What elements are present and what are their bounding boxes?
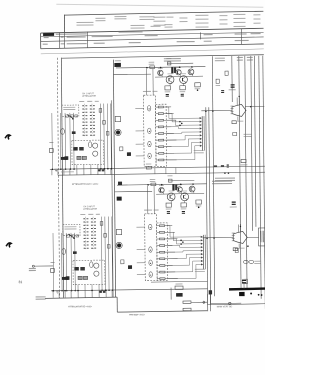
tap wire B2 [167, 231, 174, 233]
channel separator boundary wire [58, 172, 265, 175]
divider resistor RB41 [157, 225, 168, 227]
switch SB2 contact 3 [83, 225, 85, 226]
resistor RB21 [151, 183, 156, 186]
signal wire vertical x114.5 [113, 60, 115, 297]
junction dots bottom rail [52, 290, 54, 292]
relay KA1 armature [88, 142, 91, 148]
revision row 1 zone entry [61, 37, 64, 38]
tap wire A7 [166, 146, 171, 148]
wire UB30 lead 2 [240, 224, 242, 232]
divider resistor RB42 [157, 231, 168, 233]
junction dot below chB [198, 207, 200, 209]
transistor QA25 [188, 69, 194, 75]
transistor QB25 [189, 186, 195, 192]
resistor RB7 (hatched) [78, 276, 82, 279]
divider resistor RA42 [156, 113, 167, 115]
divider resistor RA41 [156, 106, 167, 108]
wire bottom right a [170, 288, 172, 300]
resistor RB33 [196, 200, 202, 204]
routing wire staircase B2 [167, 231, 173, 233]
attenuator switch SB3 wafer column [92, 217, 94, 250]
capacitor CB39 [232, 202, 236, 203]
connector PB1 pin 2 [201, 239, 203, 241]
capacitor CA32 [181, 94, 184, 95]
connector PA1 pin 7 [200, 138, 202, 140]
supply rail label (+15V) [215, 58, 225, 59]
switch SA3 contact 7 [90, 125, 92, 126]
tap wire B9 [168, 278, 178, 280]
switch column labels 2 [87, 100, 92, 103]
revision table column divider c [87, 32, 89, 48]
FET switch QA43 [148, 141, 151, 146]
switch SA2 contact 3 [82, 112, 84, 113]
svg-text:ATTENUATOR ASSY <A10>: ATTENUATOR ASSY <A10> [72, 183, 99, 186]
switch SA3 contact 4 [90, 115, 92, 116]
wire UB30 emitter [238, 243, 240, 247]
resistor RB13 [107, 245, 110, 249]
capacitor CB21 (dark) [172, 184, 174, 190]
wire chain A2 [103, 104, 106, 169]
divider resistor RB46 [157, 258, 168, 260]
junction dots rail B [53, 290, 55, 292]
relay KA1 coil 2 [93, 151, 98, 156]
op-amp UB30 (delay line driver) [233, 231, 247, 243]
switch SB3 contact 6 [91, 235, 93, 236]
tap wire B6 [168, 258, 178, 260]
transistor QA22 [166, 76, 174, 84]
connector PB1 pin 3 [201, 243, 203, 245]
FET switch QB44 [149, 272, 152, 277]
resistor RA33 [195, 83, 201, 87]
switch SB1 contacts [69, 234, 74, 238]
switch SA2 contact 6 [82, 122, 84, 123]
revision table main top border [41, 28, 264, 33]
tap wire A8 [167, 152, 174, 154]
routing wire staircase B1 [167, 225, 170, 227]
switch SA2 contact 1 [82, 105, 84, 106]
divider resistor RA49 [156, 159, 167, 161]
junction dot rail chA 3 [191, 66, 193, 68]
ground symbol ch B [56, 290, 59, 292]
capacitor C161 [227, 164, 229, 165]
tap wire A6 [166, 139, 176, 141]
variable resistor diamond [203, 301, 205, 304]
tap wire B8 [168, 271, 175, 273]
supply wire vertical x240 [239, 56, 241, 288]
relay KA1 contact a [73, 147, 78, 151]
tap wire A4 [166, 126, 171, 128]
junction dot rail chB 3 [192, 183, 194, 185]
wire emitter q2 chA [169, 84, 171, 86]
resistor RB52 [243, 279, 248, 284]
relay box ground wires [77, 285, 79, 291]
junction dot rail chA 1 [160, 67, 162, 69]
capacitor CA22 (dark) [174, 67, 176, 73]
junction dot below chA [197, 89, 199, 91]
routing wire staircase B9 [168, 277, 196, 279]
revision table header text 2 [119, 31, 143, 32]
resistor R283 [183, 301, 191, 303]
capacitor CA39 [231, 84, 235, 85]
transistor QA24 label [181, 72, 186, 75]
revision row 2 description [67, 43, 87, 44]
relay KB1 dashed box [73, 260, 105, 285]
trig signal label [36, 296, 46, 297]
connector PB1 pin 4 [201, 246, 203, 248]
revision note text block 6 [195, 15, 208, 16]
svg-text:ATTENUATOR: ATTENUATOR [83, 208, 97, 211]
relay KB1 coil 1 [94, 263, 99, 268]
attenuator assembly border left wire [61, 58, 63, 298]
switch SB2 contact 4 [83, 228, 85, 229]
resistor RB22 [168, 179, 172, 182]
switch column labels 3 [95, 100, 99, 103]
connector PA1 spine 2 [203, 116, 205, 150]
bottom border wire mid [117, 311, 207, 312]
switch SB3 contact 4 [91, 228, 93, 229]
switch SA2 contact 10 [83, 135, 85, 136]
wire pair to main vert [207, 294, 209, 311]
test point TPB ellipses [243, 260, 248, 263]
attenuator switch SA2 wafer column [83, 104, 85, 137]
switch SB3 contact 10 [91, 248, 93, 249]
supply wire vertical x260 [259, 56, 261, 299]
bus wire vertical x213 [212, 56, 214, 296]
connector J201 body [117, 197, 122, 201]
wire chain A4 [110, 104, 113, 169]
connector PA1 pin 1 [200, 117, 202, 119]
relay box ground wires [76, 165, 78, 169]
transistor QA21 label [158, 67, 163, 70]
switch SB2 contact 1 [83, 218, 85, 219]
input coupling label [64, 225, 76, 228]
connector PB1 pin 6 [201, 253, 203, 255]
resistor RA15 [120, 147, 123, 151]
diode CRB11 [128, 265, 132, 269]
tap wire B1 [167, 225, 172, 227]
transistor QA23 label [176, 66, 181, 69]
small capacitor C216 [221, 90, 224, 91]
revision note text block 14 [165, 24, 173, 25]
connector PB1 spine [202, 235, 204, 269]
component legs above bottom border [52, 291, 54, 298]
revision row 2 description 2 [94, 43, 105, 44]
junction dot bus B 1 [206, 237, 208, 239]
revision note text block 11 [179, 17, 187, 18]
transistor QB24 label [182, 190, 187, 193]
revision table column divider d [200, 32, 202, 39]
capacitor CA7 (dark) [65, 156, 69, 160]
junction dot rail chA 4 [146, 67, 148, 69]
resistor RA51 [232, 121, 236, 124]
revision note text block 1 [76, 22, 93, 23]
connector J101 body [114, 63, 121, 67]
junction dot supply B [240, 226, 241, 227]
capacitor CB2 [73, 251, 77, 254]
resistor R282 (filled) [176, 293, 183, 297]
switch SB3 contact 2 [91, 221, 93, 222]
supply wire vertical x252 [251, 56, 253, 231]
switch SB2 contact 8 [84, 241, 86, 242]
transistor QB25 label [190, 183, 195, 186]
wire UA30 lead 2 [238, 97, 240, 105]
connector PB1 spine 2 [204, 235, 206, 269]
transistor QA11 [116, 130, 120, 134]
routing wire staircase B4 [167, 244, 179, 246]
input network caps B [67, 235, 70, 237]
capacitor CA11 [99, 109, 102, 113]
divider network UA11 dashed outline [155, 104, 166, 166]
capacitor CB3 [62, 277, 68, 280]
bus wire vertical x207 [206, 107, 208, 304]
divider resistor RA48 [156, 152, 167, 154]
capacitor CB32 [182, 211, 185, 212]
input wire A3 [64, 113, 67, 169]
revision row 1 description 2 [92, 36, 113, 37]
capacitor C291 [242, 280, 246, 281]
signal wire vertical x112 [111, 100, 113, 297]
input wire B3 [65, 233, 68, 291]
bottom border wire left [45, 297, 117, 298]
relay KA1 coil 1 [93, 143, 98, 148]
resistor RB31 [166, 203, 171, 207]
junction dot rail chB 1 [161, 184, 163, 186]
divider network UB11 dashed outline [157, 223, 168, 281]
FET switch QA41 [147, 106, 150, 111]
switch SB2 contact 7 [84, 238, 86, 239]
attenuator switch SA3 wafer column [91, 104, 93, 137]
relay KB1 contact a [74, 267, 79, 271]
connector PB1 pin 5 [201, 250, 203, 252]
input coupling label [63, 106, 75, 109]
ferrite bead L161 [214, 165, 217, 167]
transistor QA24 [180, 76, 188, 84]
ch B ground rail [51, 289, 207, 291]
wire chain A1 [99, 104, 102, 169]
routing wire staircase A2 [166, 113, 172, 115]
capacitor CB22 (dark) [175, 185, 177, 191]
supply wire vertical x246 [245, 56, 247, 288]
switch SA3 contact 6 [90, 122, 92, 123]
input wire B2 [61, 233, 64, 291]
resistor RB14 box [116, 229, 121, 234]
wire chain B2 [104, 217, 107, 291]
junction dot bus A 1 [205, 110, 207, 112]
capacitor CA3 [61, 157, 67, 160]
routing wire staircase A3 [166, 119, 175, 121]
wire chain B3 [107, 217, 110, 291]
wire input to UA30 [201, 110, 232, 112]
relay K201 outline [258, 228, 265, 246]
junction dot relay [247, 245, 249, 247]
capacitor CA12 [103, 121, 106, 125]
capacitor CB11 [100, 222, 103, 226]
revision note text block 13 [151, 26, 161, 27]
revision table upper strip left edge [63, 15, 65, 32]
wire chain A3 [106, 104, 109, 169]
transistor QB23 [177, 187, 182, 192]
wire UB30 lead 1 [237, 224, 239, 232]
input wire A5 [73, 113, 76, 169]
connector PA1 pin 5 [200, 131, 202, 133]
transistor QA23 [176, 70, 181, 75]
divider resistor RA47 [156, 146, 167, 148]
channel separator ground rail [50, 166, 265, 169]
transistor QB22 label [169, 190, 174, 193]
junction knot chA [179, 121, 181, 123]
routing wire staircase A6 [166, 139, 185, 141]
resistor RB8 (hatched) [83, 276, 87, 279]
supply wire vertical x264 [263, 56, 265, 309]
revision note text block 12 [131, 25, 145, 26]
divider resistor RA46 [156, 139, 167, 141]
resistor R161 on ground rail [146, 166, 151, 169]
switch SA2 contact 2 [82, 109, 84, 110]
revision note text block 3 [114, 16, 126, 17]
component legs above separator [51, 169, 53, 175]
wire UA30 lead 1 [236, 97, 238, 105]
margin check mark 1 [5, 135, 10, 140]
junction dots rail A [52, 168, 54, 170]
diode CRA11 [127, 152, 131, 156]
connector PA1 pin 6 [200, 134, 202, 136]
ground pads ch B [99, 291, 102, 293]
connector PB1 pin 9 [201, 263, 203, 265]
capacitor CA2 [72, 131, 76, 134]
resistor RB1 label [50, 261, 54, 264]
svg-text:ATTENUATOR: ATTENUATOR [82, 95, 96, 98]
revision row 2 LTR entry [43, 44, 48, 45]
ferrite bead L162 [221, 165, 224, 167]
probe power label [29, 268, 36, 269]
resistor RA32 [180, 86, 186, 90]
resistor R281 [175, 286, 183, 289]
revision table bottom border [41, 44, 264, 49]
capacitor CB7 (dark) [66, 276, 70, 280]
switch SA3 contact 1 [90, 105, 92, 106]
upper rail wire chA [167, 62, 193, 64]
resistor RA22 [167, 62, 171, 65]
divider resistor RB49 [157, 278, 168, 280]
input coupling switch SA1 dashed box [62, 105, 79, 116]
ladder input stubs chB [136, 226, 144, 228]
routing wire staircase A4 [166, 126, 178, 128]
resistor RA52 [241, 159, 246, 162]
transistor QB24 [181, 193, 189, 201]
connector circle [229, 302, 231, 304]
revision table header cell (filled) [43, 33, 54, 36]
relay KB1 armature [90, 262, 93, 268]
small resistor R217 [225, 71, 228, 75]
variable capacitor CA1 [61, 129, 65, 135]
junction dot bus B 2 [213, 237, 215, 239]
revision note text block 7 [219, 15, 227, 16]
switch column labels 3 [96, 213, 100, 216]
output bus label chA [194, 149, 204, 152]
junction dot on separator [224, 172, 226, 174]
svg-text:MAIN VERT BD: MAIN VERT BD [217, 305, 233, 308]
routing wire staircase B6 [168, 258, 187, 260]
routing wire staircase A5 [166, 132, 181, 134]
wire collector bus chA [155, 75, 203, 78]
revision table column divider b [64, 32, 66, 48]
FET switch QB42 [149, 247, 152, 252]
output bus label chB [195, 268, 205, 271]
transistor QB11 [117, 243, 121, 247]
resistor RB1 [51, 269, 55, 273]
transistor QB23 label [177, 183, 182, 186]
routing wire staircase A8 [167, 152, 192, 154]
junction dot rail chB 4 [147, 184, 149, 186]
resistor R284 [183, 308, 191, 310]
junction blob on vertical wire [118, 182, 122, 186]
bus wire vertical x209 [209, 107, 211, 304]
switch column labels 2 [88, 213, 93, 216]
variable capacitor CB1 [62, 249, 66, 255]
junction dot supply A [238, 96, 239, 97]
connector PA1 spine [201, 116, 203, 150]
tap wire B7 [168, 264, 173, 266]
switch SA3 contact 2 [90, 108, 92, 109]
revision note text block 2 [95, 18, 105, 19]
resistor RA8 (hatched) [82, 156, 86, 159]
margin check mark 2 [6, 243, 11, 248]
tap wire B3 [167, 238, 177, 240]
switch SB2 contact 10 [84, 248, 86, 249]
wire main vert bd [207, 304, 266, 305]
wire input to UB30 [203, 237, 234, 239]
connector PA1 pin 2 [200, 120, 202, 122]
tap wire A1 [166, 106, 171, 108]
supply wire vertical x233 [231, 56, 233, 102]
switch SA2 contact 8 [83, 128, 85, 129]
ch B attenuator label [212, 181, 232, 182]
revision table column divider e [241, 29, 243, 45]
switch SA1 contacts [68, 115, 73, 119]
op-amp UA30 (delay line driver) [232, 104, 246, 116]
attenuator switch SB2 wafer column [85, 217, 87, 250]
revision note text block 5 [166, 17, 173, 18]
wire bottom right b [191, 301, 207, 303]
switch SA3 contact 9 [90, 131, 92, 132]
delay line termination block [239, 292, 245, 296]
switch SA2 contact 9 [83, 131, 85, 132]
revision table header text [56, 33, 87, 34]
wire output rail A [245, 105, 264, 107]
resistor RA53 [233, 132, 237, 135]
bottom border step vertical [116, 297, 118, 312]
revision table row divider [41, 37, 264, 42]
divider resistor RA43 [156, 119, 167, 121]
junction knot chB [180, 240, 182, 242]
switch SB2 contact 2 [83, 222, 85, 223]
switch SB2 contact 9 [84, 244, 86, 245]
connector PA1 pin 8 [200, 141, 202, 143]
relay KB1 coil 2 [94, 271, 99, 276]
wire emitter q2 chB [170, 201, 172, 203]
small resistor R216 [216, 79, 219, 83]
FET switch QB41 [149, 224, 152, 229]
divider resistor RB44 [157, 245, 168, 247]
switch column labels [79, 100, 84, 103]
switch SB3 contact 9 [91, 244, 93, 245]
relay KB1 contact b [80, 267, 85, 271]
revision table column divider a [59, 32, 61, 48]
transistor QB22 [167, 193, 175, 201]
switch SB3 contact 7 [91, 238, 93, 239]
revision note text block 9 [253, 14, 260, 15]
tap wire A5 [166, 132, 173, 134]
